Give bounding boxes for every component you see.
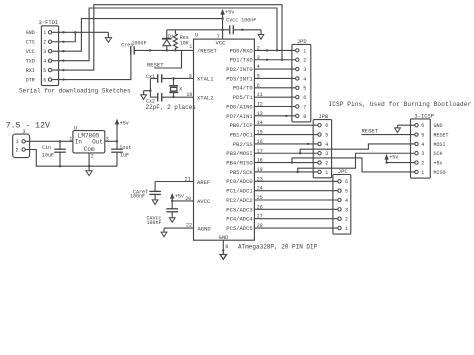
wire PD4/T0 to JPD pin 5 (254, 87, 295, 89)
svg-text:5: 5 (345, 189, 348, 195)
wire GND pin8 (222, 240, 224, 254)
svg-text:+5v: +5v (389, 155, 398, 161)
svg-text:PC2/ADC2: PC2/ADC2 (226, 197, 252, 204)
wire PD3/INT1 to JPD pin 4 (254, 77, 295, 79)
JPD pin 8 (296, 114, 299, 117)
wire FTDI CTS pin2 to GND net (52, 32, 76, 41)
svg-text:3: 3 (345, 207, 348, 213)
svg-text:GND: GND (26, 30, 35, 36)
ground at CAVcc (171, 217, 173, 219)
svg-text:PB2/SS: PB2/SS (233, 141, 254, 148)
JPB pin 6 (318, 124, 321, 127)
svg-text:2: 2 (43, 40, 46, 46)
svg-text:1: 1 (69, 136, 72, 142)
regulator U2 LM7805 (73, 131, 105, 153)
svg-text:1: 1 (43, 30, 46, 36)
svg-text:2: 2 (303, 58, 306, 64)
wire PB1/OC1 to JPB pin 5 (254, 134, 317, 136)
svg-text:1: 1 (303, 48, 306, 54)
svg-text:3: 3 (421, 151, 424, 157)
wire PD6/AIN0 to JPD pin 7 (254, 106, 295, 108)
svg-text:3: 3 (43, 49, 46, 55)
wire LM7805 com (88, 153, 90, 166)
wire SCK to ICSP pin3 (298, 153, 415, 172)
JPC pin 6 (338, 180, 341, 183)
wire PB3/MOSI to JPB pin 3 (254, 152, 317, 154)
svg-text:PD3/INT1: PD3/INT1 (226, 75, 253, 82)
svg-text:PD0/RXD: PD0/RXD (230, 47, 254, 54)
wire PB2/SS to JPB pin 4 (254, 143, 317, 145)
svg-text:4: 4 (345, 198, 348, 204)
svg-text:7.5 - 12V: 7.5 - 12V (6, 121, 50, 130)
svg-text:+5v: +5v (175, 194, 184, 200)
capacitor Cx1 22pF (150, 77, 157, 79)
wire PD2/INT0 to JPD pin 3 (254, 68, 295, 70)
wire FTDI DTR pin6 to Cres (52, 50, 131, 79)
svg-text:JPB: JPB (318, 113, 329, 120)
wire ICSP GND (398, 124, 415, 126)
svg-text:SCK: SCK (434, 151, 443, 157)
wire LM7805 out (105, 140, 117, 142)
JPB pin 5 (318, 133, 321, 136)
svg-text:3-ICSP: 3-ICSP (414, 113, 434, 120)
wire PB4/MISO to JPB pin 2 (254, 162, 317, 164)
wire PC4/ADC4 to JPC pin 2 (254, 218, 337, 220)
capacitor Cin 10uF (59, 141, 61, 149)
svg-text:1: 1 (421, 170, 424, 176)
svg-text:PD1/TXD: PD1/TXD (230, 57, 254, 64)
wire PC5/ADC5 to JPC pin 1 (254, 227, 337, 229)
svg-text:PD6/AIN0: PD6/AIN0 (226, 103, 252, 110)
wire MISO to ICSP pin1 (292, 158, 415, 172)
wire to crystal ground (144, 90, 151, 92)
capacitor Cres 100nF (130, 46, 132, 54)
connector JPB (313, 120, 331, 178)
connector J3 power (13, 134, 30, 158)
svg-text:TXD: TXD (26, 59, 35, 65)
svg-text:2: 2 (345, 217, 348, 223)
wire crystal caps common (149, 78, 151, 97)
svg-text:100nF: 100nF (130, 194, 145, 200)
svg-text:10K: 10K (180, 40, 189, 46)
ICSP pin 2 +5v (415, 161, 418, 164)
svg-text:5: 5 (303, 86, 306, 92)
wire AREF (155, 181, 193, 183)
svg-text:Com: Com (84, 146, 95, 153)
connector JPC (333, 175, 351, 235)
svg-text:ATmega328P, 20 PIN DIP: ATmega328P, 20 PIN DIP (238, 244, 318, 251)
capacitor CAVcc 100nF (171, 201, 173, 209)
svg-text:+5v: +5v (120, 121, 129, 127)
svg-text:2: 2 (91, 153, 94, 159)
svg-text:/RESET: /RESET (197, 48, 218, 55)
wire Cvcc to ground (233, 29, 261, 31)
JPD pin 1 (296, 49, 299, 52)
JPD pin 5 (296, 86, 299, 89)
svg-text:4: 4 (325, 142, 328, 148)
svg-text:RESET: RESET (362, 128, 379, 135)
crystal X (173, 78, 175, 85)
svg-text:XTAL1: XTAL1 (197, 76, 214, 83)
svg-text:U: U (74, 125, 77, 132)
wire FTDI VCC pin3 to +5v rail (52, 19, 223, 52)
svg-text:RESET: RESET (434, 132, 449, 138)
svg-text:X: X (179, 87, 182, 93)
svg-text:PD7/AIN1: PD7/AIN1 (226, 113, 253, 120)
wire PC1/ADC1 to JPC pin 5 (254, 190, 337, 192)
svg-text:PB5/SCK: PB5/SCK (230, 169, 254, 176)
svg-text:3-FTDI: 3-FTDI (39, 19, 59, 26)
svg-text:2: 2 (16, 148, 19, 154)
svg-text:MISO: MISO (434, 170, 446, 176)
svg-text:VCC: VCC (26, 49, 35, 55)
svg-text:Serial for downloading Sketche: Serial for downloading Sketches (19, 88, 131, 95)
JPB pin 1 (318, 170, 321, 173)
power +5v AVCC (171, 194, 174, 198)
wire power return (25, 150, 117, 167)
svg-text:PC1/ADC1: PC1/ADC1 (226, 188, 253, 195)
JPC pin 2 (338, 217, 341, 220)
svg-text:CTS: CTS (26, 40, 35, 46)
svg-text:PD2/INT0: PD2/INT0 (226, 66, 252, 73)
wire PC3/ADC3 to JPC pin 3 (254, 208, 337, 210)
svg-text:PB3/MOSI: PB3/MOSI (226, 150, 252, 157)
svg-text:6: 6 (325, 123, 328, 129)
svg-text:JPC: JPC (338, 168, 349, 175)
JPC pin 3 (338, 208, 341, 211)
wire PB0/ICP to JPB pin 6 (254, 124, 317, 126)
svg-text:1: 1 (345, 226, 348, 232)
svg-text:JPD: JPD (297, 38, 308, 45)
svg-text:6: 6 (43, 77, 46, 83)
svg-text:7: 7 (303, 104, 306, 110)
capacitor Cvcc 100nF (229, 25, 231, 34)
wire PC0/ADC0 to JPC pin 6 (254, 180, 337, 182)
svg-text:PC0/ADC0: PC0/ADC0 (226, 178, 252, 185)
wire FTDI GND pin1 to ground (52, 31, 109, 33)
svg-text:9: 9 (189, 73, 192, 79)
capacitor CAref 100nF (154, 182, 156, 192)
capacitor Cout 1uF (116, 141, 118, 149)
svg-text:Cout: Cout (120, 145, 132, 151)
svg-text:3: 3 (23, 129, 26, 135)
svg-text:GND: GND (434, 123, 443, 129)
svg-text:U: U (195, 31, 198, 38)
svg-text:6: 6 (303, 95, 306, 101)
ICSP pin 6 GND (415, 124, 418, 127)
svg-text:AREF: AREF (197, 179, 210, 186)
svg-text:GND: GND (219, 234, 230, 241)
connector J2 3-ICSP (411, 119, 431, 178)
capacitor Cx2 22pF (150, 96, 157, 98)
power +5v ICSP (385, 155, 388, 159)
svg-text:PD4/T0: PD4/T0 (233, 85, 253, 92)
connector J1 3-FTDI (41, 26, 58, 86)
svg-text:XTAL2: XTAL2 (197, 94, 214, 101)
JPD pin 4 (296, 77, 299, 80)
ground at AGND (163, 228, 165, 232)
junction CTS/GND (74, 31, 76, 33)
svg-text:1: 1 (325, 170, 328, 176)
wire FTDI RXI pin5 to PD1/TXD (52, 5, 282, 70)
svg-text:In: In (75, 139, 83, 146)
junction RXI/PD1 (281, 59, 283, 61)
wire PD7/AIN1 to JPD pin 8 (254, 115, 295, 117)
svg-text:4: 4 (421, 142, 424, 148)
svg-text:8: 8 (303, 114, 306, 120)
svg-text:5: 5 (43, 68, 46, 74)
junction dots on PD rows (266, 49, 268, 51)
svg-text:PC5/ADC5: PC5/ADC5 (226, 225, 252, 232)
wire ICSP RESET (362, 134, 415, 136)
svg-text:4: 4 (43, 59, 46, 65)
svg-text:PB1/OC1: PB1/OC1 (230, 131, 254, 138)
svg-text:PB4/MISO: PB4/MISO (226, 160, 253, 167)
svg-text:PC3/ADC3: PC3/ADC3 (226, 206, 252, 213)
ground at crystal (143, 91, 145, 95)
resistor Res 10K (173, 30, 177, 51)
wire PB5/SCK to JPB pin 1 (254, 171, 317, 173)
diode D1 (166, 30, 168, 39)
svg-text:PD5/T1: PD5/T1 (233, 94, 254, 101)
JPB pin 3 (318, 152, 321, 155)
svg-text:6: 6 (421, 123, 424, 129)
svg-text:3: 3 (303, 67, 306, 73)
ground at power (88, 166, 90, 171)
wire power input (25, 140, 73, 142)
svg-text:Out: Out (92, 139, 103, 146)
svg-text:10: 10 (186, 92, 192, 98)
JPD pin 3 (296, 67, 299, 70)
svg-text:+5v: +5v (434, 161, 443, 167)
ICSP pin 3 SCK (415, 152, 418, 155)
svg-text:PB0/ICP: PB0/ICP (230, 122, 253, 129)
svg-text:4: 4 (303, 76, 306, 82)
svg-text:AVCC: AVCC (197, 198, 211, 205)
ground at CAref (154, 199, 156, 201)
wire AVCC (172, 200, 193, 202)
JPC pin 5 (338, 189, 341, 192)
JPC pin 1 (338, 226, 341, 229)
svg-text:1uF: 1uF (120, 152, 129, 158)
svg-text:1: 1 (189, 44, 192, 50)
wire FTDI TXD pin4 to PD0/RXD (52, 8, 277, 61)
wire PD0/RXD to JPD pin 1 (254, 49, 295, 51)
power +5v top (221, 10, 224, 14)
svg-text:Cin: Cin (42, 145, 51, 151)
ground at ICSP (397, 125, 399, 128)
ground at Cvcc (260, 30, 262, 35)
svg-text:AGND: AGND (198, 226, 212, 233)
svg-text:3: 3 (325, 151, 328, 157)
wire PD5/T1 to JPD pin 6 (254, 96, 295, 98)
svg-text:2: 2 (421, 161, 424, 167)
svg-text:22pF, 2 places: 22pF, 2 places (146, 104, 197, 111)
svg-text:RXI: RXI (26, 68, 35, 74)
svg-text:RESET: RESET (147, 61, 164, 68)
svg-text:ICSP Pins, Used for Burning Bo: ICSP Pins, Used for Burning Bootloader (329, 101, 472, 108)
svg-text:5: 5 (421, 132, 424, 138)
svg-text:6: 6 (345, 179, 348, 185)
svg-text:10uF: 10uF (42, 152, 54, 158)
ICSP pin 5 RESET (415, 133, 418, 136)
JPC pin 4 (338, 198, 341, 201)
JPD pin 7 (296, 105, 299, 108)
ICSP pin 4 MOSI (415, 142, 418, 145)
svg-text:8: 8 (225, 244, 228, 250)
wire PC2/ADC2 to JPC pin 4 (254, 199, 337, 201)
svg-text:5: 5 (325, 132, 328, 138)
svg-text:2: 2 (325, 161, 328, 167)
JPD pin 2 (296, 58, 299, 61)
svg-text:100nF: 100nF (147, 220, 162, 226)
svg-text:DTR: DTR (26, 77, 35, 83)
ground at FTDI GND (107, 32, 109, 37)
wire PD1/TXD to JPD pin 2 (254, 59, 295, 61)
wire /RESET net (134, 49, 193, 51)
ICSP pin 1 MISO (415, 170, 418, 173)
wire MOSI to ICSP pin4 (300, 144, 415, 153)
power +5v output (115, 120, 118, 124)
svg-text:MOSI: MOSI (434, 142, 446, 148)
svg-text:VCC: VCC (216, 39, 227, 46)
wire ICSP +5v pin2 (387, 162, 415, 164)
svg-text:+5v: +5v (225, 10, 234, 16)
JPB pin 2 (318, 161, 321, 164)
ground at IC GND (220, 255, 226, 260)
svg-text:PC4/ADC4: PC4/ADC4 (226, 216, 253, 223)
JPD pin 6 (296, 95, 299, 98)
svg-text:Cvcc 100nF: Cvcc 100nF (226, 17, 256, 23)
wire AGND (164, 227, 194, 229)
svg-text:100nF: 100nF (132, 41, 147, 47)
wire D1/Res top to +5v (167, 29, 230, 31)
op IC U ATmega328P box (194, 39, 255, 240)
junction TXD/PD0 (276, 49, 278, 51)
connector JPD (292, 44, 311, 122)
JPB pin 4 (318, 142, 321, 145)
svg-text:1: 1 (16, 139, 19, 145)
